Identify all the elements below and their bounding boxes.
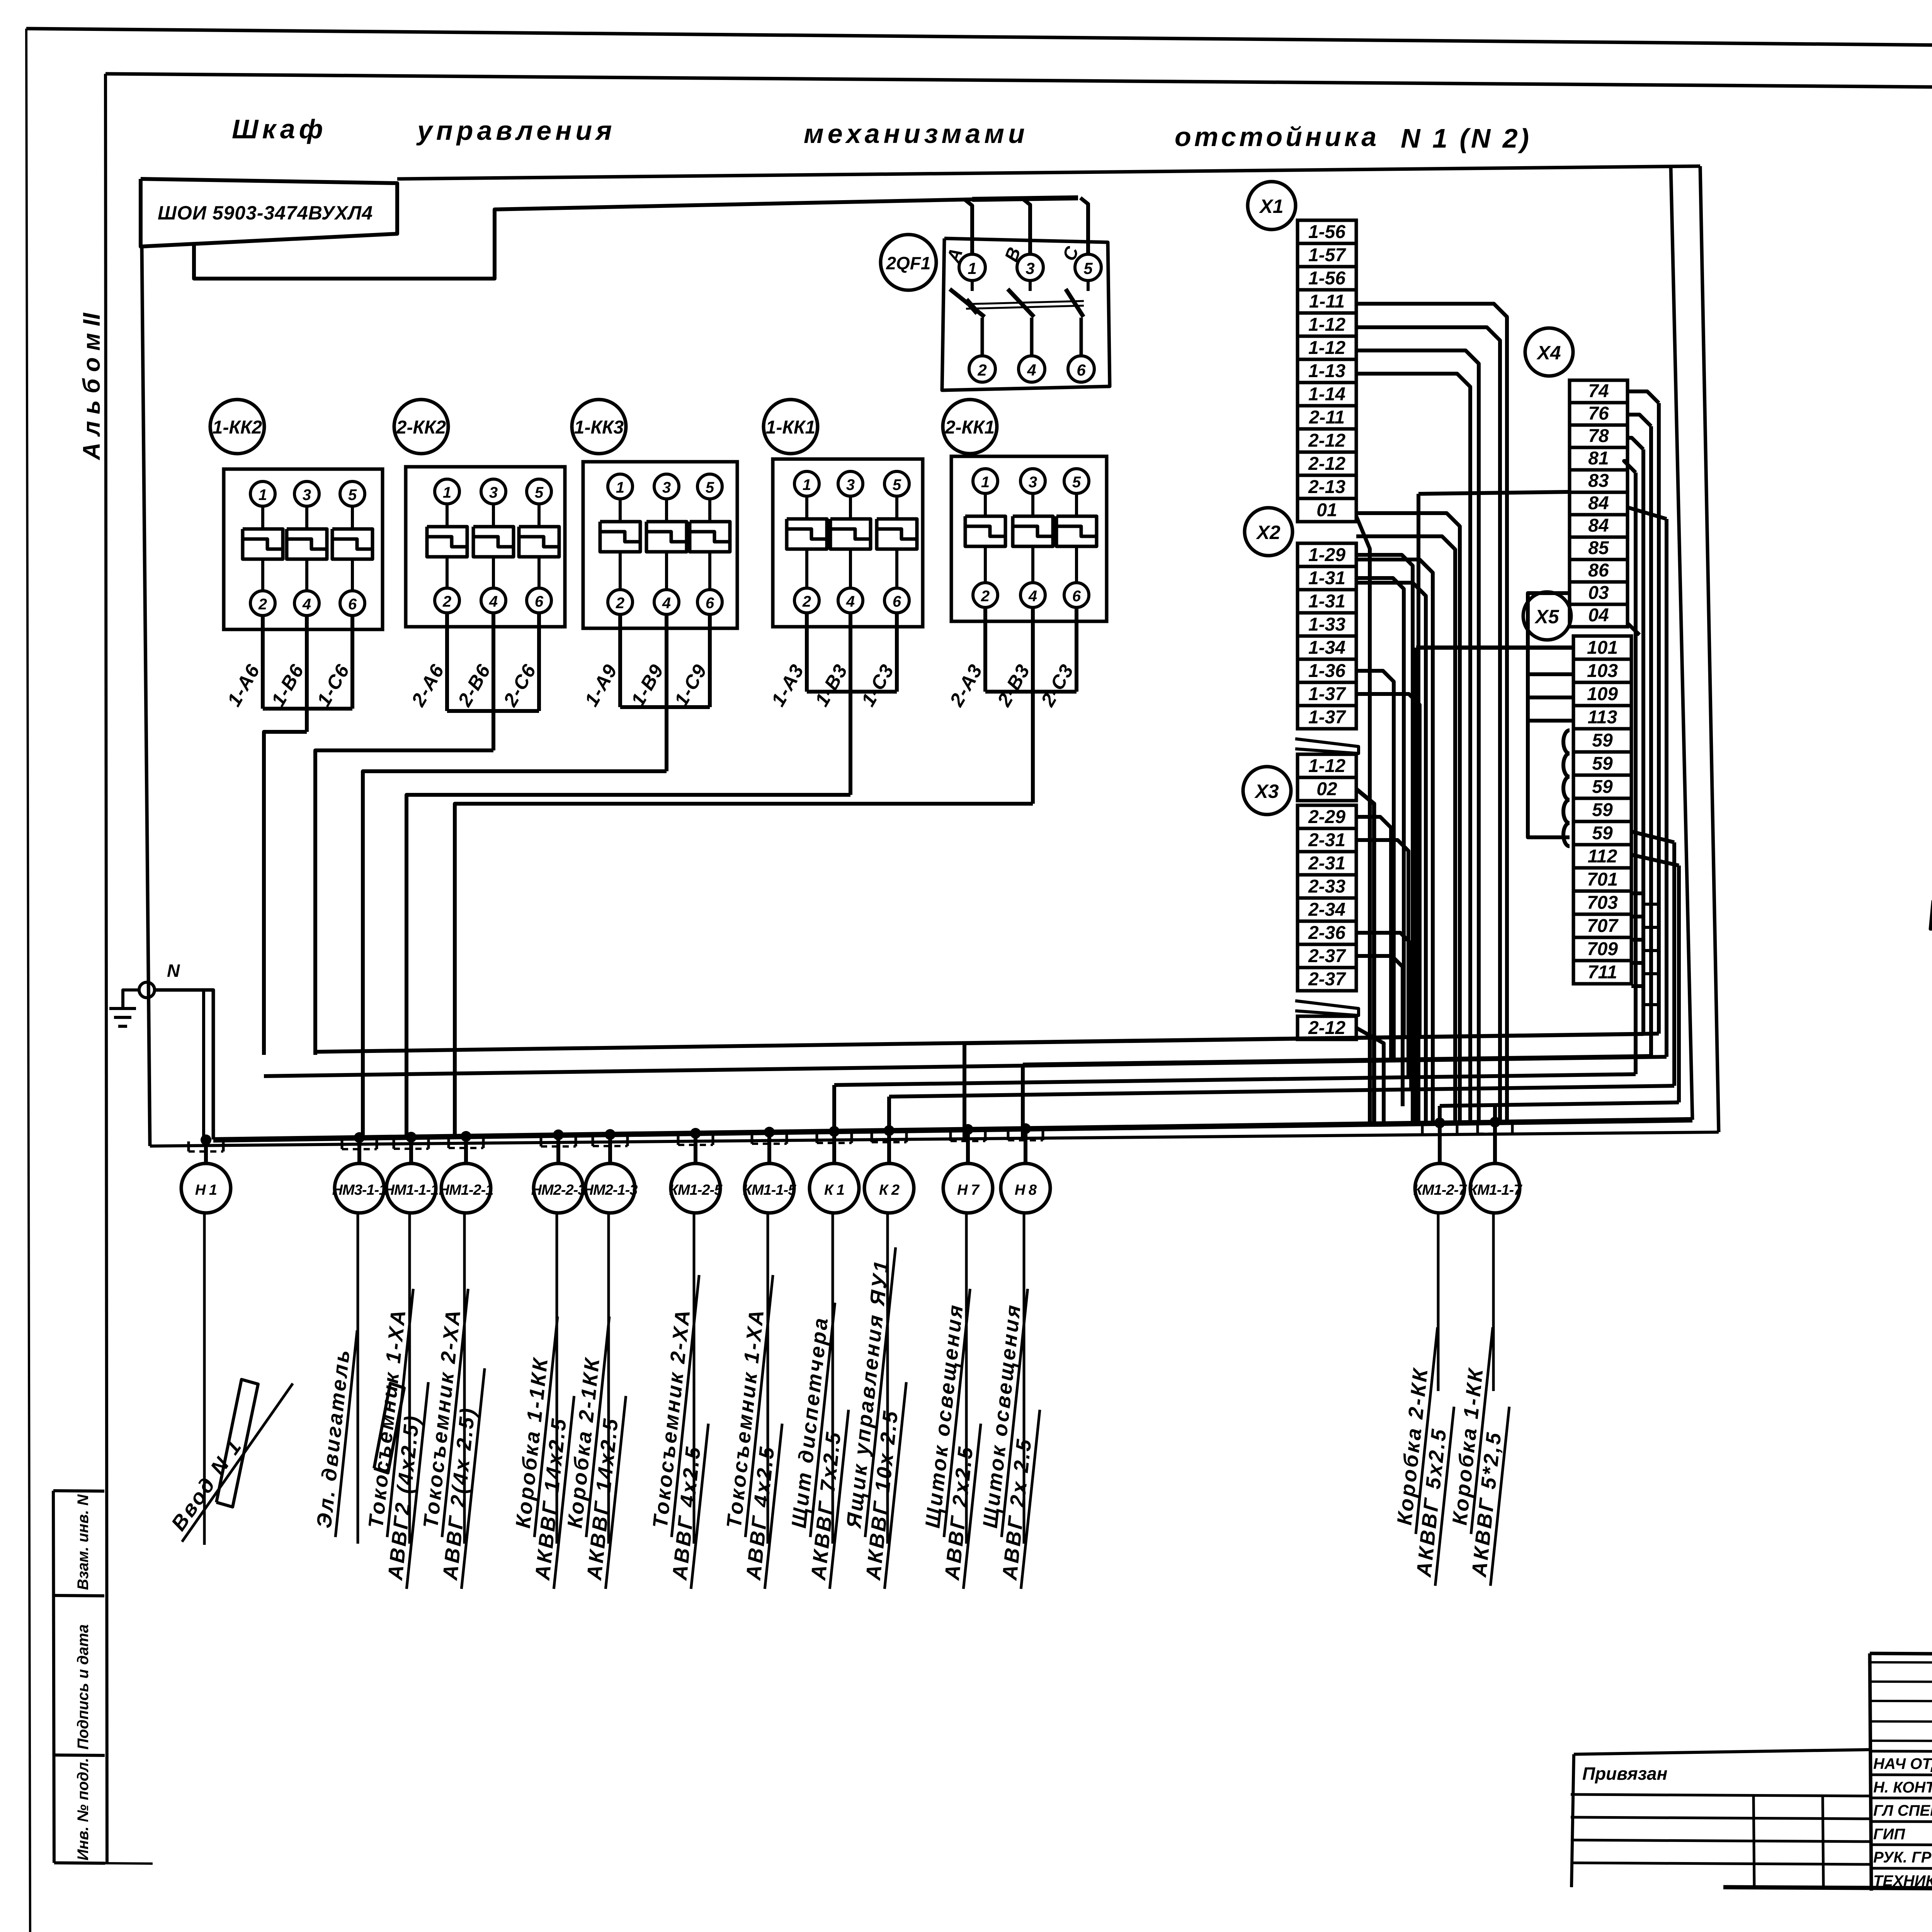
heater step [427,537,467,547]
stub to КМ1-2-5 [694,1133,697,1164]
cable bracket dashed [394,1148,429,1150]
wire X1 01 [1356,516,1370,1124]
connector label circle X2 [1245,508,1293,556]
terminal X4 04 [1570,604,1628,627]
relay 2-КК1 box [951,456,1107,621]
stub to X5 at 1745 [1528,672,1573,676]
svg-text:1-56: 1-56 [1308,222,1345,242]
relay 2-КК1 pin 2 [973,583,998,607]
pin lead top [1087,281,1090,291]
stub X5 701 [1631,891,1643,895]
wire below relay [445,613,449,711]
pin lead [805,496,808,519]
relay 1-КК3 pin 2 [608,590,633,614]
cable line from КМ1-2-5 [693,1213,696,1544]
svg-text:2-12: 2-12 [1308,430,1345,451]
wire N to bus [155,990,213,1139]
cable circle К 1 [810,1163,859,1213]
svg-text:81: 81 [1588,448,1609,469]
relay 2-КК1 pin 4 [1020,583,1045,607]
inner frame bottom tick [105,1863,153,1864]
small row line 4402 [1870,1701,1932,1702]
terminal X5 59 [1573,752,1631,775]
wire X3 row to vertical 3645 [1356,840,1408,1077]
cable bracket dashed [593,1145,628,1147]
relay 1-КК2 pin 5 [340,481,365,506]
terminal X3 2-29 [1298,805,1356,828]
heater step [690,532,730,542]
svg-text:1-29: 1-29 [1308,545,1345,565]
pin lead [537,504,541,527]
bracket hook left [1007,1130,1010,1140]
relay 1-КК2 box [224,469,383,629]
svg-text:1-34: 1-34 [1308,638,1345,658]
heater step [473,537,514,547]
svg-text:113: 113 [1588,707,1617,728]
svg-text:Н 1: Н 1 [195,1182,217,1198]
cable circle КМ1-1-7 [1470,1163,1520,1213]
junction at К 1 [829,1126,840,1137]
svg-text:К 2: К 2 [879,1182,900,1198]
pin lead bottom [981,318,984,356]
bracket hook left [540,1136,543,1146]
terminal X1 1-56 [1298,267,1356,290]
svg-text:ТЕХНИК: ТЕХНИК [1873,1872,1932,1889]
svg-text:711: 711 [1588,962,1617,983]
cable bracket dashed [449,1147,483,1149]
relay 2-КК1 wire to bus [455,804,1033,1055]
relay vertical 1052 to bus [405,1055,408,1139]
cable bracket dashed [1422,1133,1457,1136]
svg-text:1-КК3: 1-КК3 [574,417,624,438]
pin lead [261,559,264,591]
svg-text:2-34: 2-34 [1308,900,1345,920]
privyazan box left [1571,1754,1574,1887]
pin lead top [971,281,974,291]
relay 2-КК2 phase-out wire [492,711,495,750]
breaker pin 6 [1068,356,1094,382]
wire X1 row to vertical 3690 [1356,583,1426,1123]
right feeder vertical [1671,167,1692,1120]
svg-text:КМ1-2-7: КМ1-2-7 [1413,1182,1468,1198]
cabinet left edge [142,247,150,1146]
cable line from НМ1-1-1 [408,1213,411,1544]
wire to X5 101 [1416,646,1573,650]
wire H1 drop [202,990,205,1138]
svg-text:1-56: 1-56 [1308,268,1345,289]
drop to KM1-2-7 [1438,1106,1442,1133]
terminal X5 112 [1573,845,1631,868]
relay 1-КК3 heater 1 [600,522,640,552]
svg-text:85: 85 [1588,538,1609,558]
heater step [877,529,917,539]
connector label circle X5 [1523,592,1571,640]
terminal X2 1-34 [1298,636,1356,659]
relay 2-КК2 wire to bus [315,750,493,1055]
svg-text:59: 59 [1592,823,1613,844]
terminal X1 2-13 [1298,475,1356,498]
pin lead [895,496,898,519]
bracket hook right [222,1141,225,1151]
terminal X1 2-12 [1298,429,1356,452]
wire below relay [618,614,622,707]
wire X2 row to vertical 3633 [1356,578,1404,1037]
terminal X1 2-12 [1298,452,1356,475]
terminal X4 03 [1570,582,1628,604]
names table left [1870,1653,1871,1891]
wire below relay [1031,607,1035,692]
bus line b6 [889,1086,1674,1097]
pin lead [1075,493,1078,516]
svg-text:1-33: 1-33 [1308,614,1345,635]
junction at КМ1-2-7 [1434,1117,1445,1128]
strip break symbol X3 [1295,1001,1359,1015]
pin lead [665,499,668,522]
relay 2-КК2 pin 3 [481,479,506,504]
margin box divider 2 [54,1755,105,1755]
svg-text:3: 3 [1029,474,1037,491]
stub to КМ1-2-7 [1438,1123,1442,1164]
stub to КМ1-1-5 [767,1132,771,1164]
relay 1-КК2 pin 1 [250,481,275,506]
cable line from НМ1-2-1 [463,1213,466,1544]
svg-text:707: 707 [1587,916,1619,936]
terminal X5 711 [1573,961,1631,984]
relay 2-КК2 pin 1 [435,479,459,504]
bundle vertical 3665 [1414,648,1418,1123]
relay 2-КК2 heater 3 [519,527,559,557]
relay 1-КК3 pin 4 [654,590,679,614]
cable circle К 2 [864,1163,914,1213]
pin lead [446,557,449,588]
svg-text:709: 709 [1587,939,1618,959]
junction at КМ1-1-7 [1490,1117,1500,1128]
cable line from КМ1-1-5 [767,1213,769,1544]
relay 1-КК2 pin 6 [340,591,365,616]
terminal X3 2-37 [1298,944,1356,968]
terminal X5 113 [1573,706,1631,729]
svg-text:X3: X3 [1254,781,1279,802]
bundle vertical 3671 [1417,494,1420,1123]
cable label Щит диспетчера [781,1300,859,1589]
terminal X2b 1-12 [1298,754,1356,777]
heater step [519,537,559,547]
svg-text:1-31: 1-31 [1308,568,1345,588]
cable bracket dashed [1478,1133,1512,1135]
cable circle КМ1-1-5 [745,1163,794,1213]
terminal X3 2-37 [1298,968,1356,991]
svg-text:1-37: 1-37 [1308,684,1346,704]
svg-text:НМ2-2-3: НМ2-2-3 [531,1182,586,1198]
svg-text:2-37: 2-37 [1308,946,1346,966]
relay 1-КК2 heater 3 [332,529,372,559]
svg-text:103: 103 [1587,661,1618,681]
svg-text:1-37: 1-37 [1308,707,1346,728]
svg-text:КМ1-2-5: КМ1-2-5 [669,1182,723,1198]
wire X3 2-12 [1356,1028,1384,1124]
phase wire В [1022,199,1030,254]
svg-text:Инв. № подл.: Инв. № подл. [75,1758,92,1861]
pin lead [849,496,852,519]
bracket hook right [786,1134,788,1144]
junction at КМ1-1-5 [764,1127,775,1138]
svg-text:X4: X4 [1536,342,1561,364]
wire X3 row to vertical 3630 [1356,956,1403,1106]
svg-text:59: 59 [1592,753,1613,774]
bracket hook left [871,1132,873,1142]
bracket hook right [482,1138,485,1148]
pin lead [1031,546,1034,583]
relay 1-КК1 wire to bus [406,795,850,1055]
svg-text:78: 78 [1588,426,1609,446]
relay 1-КК2 pin 2 [250,591,275,616]
relay 1-КК2 pin 3 [294,481,319,506]
heater step [965,526,1005,536]
pin lead [351,559,354,591]
svg-text:701: 701 [1587,869,1618,890]
relay label circle 2-КК1 [943,400,997,454]
terminal X2 1-37 [1298,706,1356,729]
cable bracket dashed [1008,1139,1043,1141]
bracket hook right [575,1136,577,1146]
wire X2 row to vertical 3674 [1356,694,1420,1037]
cable circle НМ1-2-1 [441,1163,491,1213]
svg-text:3: 3 [489,484,498,501]
cable label Токосъемник 1-ХА [716,1272,798,1589]
wire to X4 83 [1418,492,1570,494]
jumper bracket X5 59 group [1563,730,1570,846]
stub X5 707 [1631,961,1643,965]
terminal X2 1-29 [1298,543,1356,566]
names row 4653 [1870,1798,1932,1799]
svg-text:2-33: 2-33 [1308,876,1345,897]
relay 2-КК2 heater 1 [427,527,467,557]
cable label Коробка 2-1КК [557,1314,634,1589]
relay 1-КК1 heater 2 [830,519,871,549]
svg-text:59: 59 [1592,800,1613,820]
margin box top [53,1491,104,1491]
pin lead [492,557,495,588]
wire below relay [537,613,541,711]
names table top [1870,1653,1932,1655]
wire X1 row to vertical 3778 [1356,513,1460,1123]
breaker contact blade 2 [1008,289,1034,317]
svg-text:отстойника: отстойника [1175,122,1379,152]
attach table col1 [1753,1794,1754,1886]
relay 1-КК2 heater 2 [287,529,327,559]
margin box left [53,1491,54,1863]
node N terminal [139,982,155,998]
bracket hook left [751,1134,753,1144]
right vertical 4313 [1665,519,1668,1057]
attach table row 4703 [1571,1817,1870,1819]
cable label Коробка 1-1КК [505,1314,582,1589]
relay 2-КК2 box [406,467,565,627]
svg-text:2: 2 [616,595,624,612]
svg-text:3: 3 [846,476,855,493]
pin lead [984,546,987,583]
svg-text:5: 5 [535,484,544,501]
cable label Коробка 1-КК [1442,1325,1517,1586]
wire below relay [305,616,309,709]
relay 1-КК3 pin 6 [697,590,722,614]
svg-text:Н. КОНТР.: Н. КОНТР. [1873,1779,1932,1796]
pin lead [305,506,308,529]
names row 4593 [1870,1775,1932,1776]
wire X1 row to vertical 3882 [1356,327,1500,1122]
relay 2-КК2 jumper 2-6 [447,709,539,713]
stub to НМ2-2-3 [556,1135,560,1164]
cable bracket dashed [541,1145,576,1148]
svg-text:1-12: 1-12 [1308,338,1345,358]
breaker linkage bar [966,301,1084,304]
small row line 4352 [1870,1682,1932,1682]
terminal X5 59 [1573,729,1631,752]
relay 1-КК3 pin 1 [608,474,633,499]
svg-text:ГИП: ГИП [1873,1826,1905,1843]
bracket hook right [712,1135,714,1145]
terminal X4 78 [1570,425,1628,447]
connector label circle X4 [1525,328,1573,376]
cable line from К 2 [886,1213,889,1544]
relay vertical 939 to bus [361,1055,365,1139]
svg-text:1-36: 1-36 [1308,661,1345,681]
cable bracket dashed [752,1143,787,1145]
names row 4774 [1870,1845,1932,1845]
svg-text:3: 3 [303,486,311,503]
svg-text:5: 5 [348,486,357,503]
cable label Щиток освещения [915,1286,995,1589]
svg-text:1: 1 [443,484,451,501]
relay 2-КК2 pin 2 [435,588,459,613]
relay 2-КК2 pin 5 [527,479,551,504]
wire below relay [492,613,495,711]
terminal X4 83 [1570,470,1628,492]
junction at НМ2-2-3 [553,1129,564,1140]
svg-text:101: 101 [1587,638,1618,658]
pin lead [849,549,852,588]
svg-text:74: 74 [1588,381,1609,401]
X4 03 bypass wire around X5 [1528,593,1570,837]
svg-text:Н 7: Н 7 [957,1182,980,1198]
ground bar 3 [118,1025,127,1028]
terminal X4 74 [1570,380,1628,403]
terminal X4 85 [1570,537,1628,560]
relay 2-КК1 pin 3 [1020,469,1045,493]
stub to НМ3-1-1 [357,1138,361,1164]
svg-text:1-КК2: 1-КК2 [213,417,262,438]
bracket hook right [984,1131,987,1141]
svg-text:3: 3 [662,479,671,496]
ladder rung [1643,903,1659,906]
svg-text:2: 2 [977,361,986,379]
wire X1 row to vertical 3766 [1356,536,1455,1123]
breaker pin 1 [959,254,985,281]
svg-text:6: 6 [893,593,901,610]
svg-text:1-13: 1-13 [1308,361,1345,381]
wire below relay [849,613,852,692]
relay label circle 1-КК3 [572,400,626,454]
terminal X1 2-11 [1298,406,1356,429]
cable line from Н 8 [1023,1213,1026,1544]
relay 1-КК1 pin 5 [884,471,909,496]
relay 1-КК2 phase-out wire [305,709,309,732]
right vertical 4333 [1672,842,1676,1086]
svg-text:1-11: 1-11 [1309,291,1345,312]
breaker actuator mark [966,300,978,313]
right vertical 4233 [1634,473,1638,1074]
cable line from НМ3-1-1 [357,1213,359,1544]
wire below relay [708,614,712,707]
small row line 4505 [1870,1741,1932,1742]
outer frame top [26,29,1932,51]
svg-text:РУК. ГР: РУК. ГР [1873,1849,1932,1866]
bracket hook right [1511,1124,1514,1134]
junction at НМ2-1-3 [605,1129,616,1140]
relay 2-КК1 jumper 2-6 [985,690,1077,694]
svg-text:управления: управления [416,116,616,146]
terminal X3 2-34 [1298,898,1356,921]
svg-text:N: N [167,961,180,981]
svg-text:3: 3 [1026,259,1034,277]
pin lead [1075,546,1078,583]
bracket hook right [376,1139,378,1149]
cable circle Н 8 [1001,1163,1050,1213]
svg-text:X2: X2 [1255,522,1280,543]
wire below relay [350,616,354,709]
svg-text:А л ь б о м II: А л ь б о м II [78,312,105,461]
svg-text:4: 4 [1027,361,1036,379]
cable line from КМ1-2-7 [1437,1213,1440,1391]
heater step [287,539,327,549]
svg-text:5: 5 [893,476,901,493]
terminal X2b 02 [1298,777,1356,801]
bracket hook left [341,1139,344,1149]
svg-text:2-12: 2-12 [1308,454,1345,474]
symbol parallelogram motor [374,1383,404,1473]
cable circle Н 1 [181,1163,231,1213]
right vertical 4345 [1677,866,1681,1102]
wire below relay [665,614,668,707]
svg-text:04: 04 [1588,605,1609,626]
outer frame left [26,29,30,1932]
relay 1-КК2 wire to bus [264,732,307,1055]
symbol parallelogram vvod [216,1379,258,1507]
svg-text:механизмами: механизмами [804,119,1029,149]
bracket hook right [626,1136,629,1146]
terminal X5 109 [1573,682,1631,706]
pin lead [492,504,495,527]
stub X5 703 [1631,915,1643,918]
wire X1 row to vertical 3805 [1356,374,1470,1122]
breaker pin 4 [1019,356,1045,382]
wire below relay [895,613,899,692]
pin lead [805,549,808,588]
wire X1 row to vertical 3708 [1356,560,1433,1123]
svg-text:1-14: 1-14 [1308,384,1345,405]
svg-text:84: 84 [1588,515,1609,536]
inner frame left [105,74,107,1863]
ground bar 2 [114,1016,131,1019]
cable circle КМ1-2-7 [1415,1163,1464,1213]
legend parallelogram symbol [1930,896,1932,929]
relay 1-КК3 heater 2 [646,522,687,552]
heater step [1056,526,1097,536]
heater step [787,529,827,539]
terminal X4 76 [1570,403,1628,425]
svg-text:2: 2 [981,588,990,605]
relay 1-КК1 jumper 2-6 [807,690,897,694]
